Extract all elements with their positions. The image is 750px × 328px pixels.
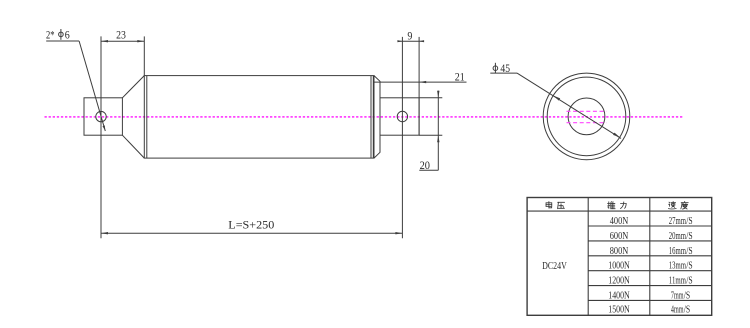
table row line 4 — [588, 270, 712, 272]
dimension L=S+250 line — [101, 232, 402, 234]
end view outer circle — [543, 73, 630, 160]
dimension 23 arrow right — [137, 40, 144, 42]
svg-text:1200N: 1200N — [608, 276, 630, 287]
svg-text:20mm: 20mm — [669, 231, 687, 242]
rod hole — [397, 111, 407, 121]
end view hidden line top — [567, 110, 607, 112]
svg-text:/S: /S — [686, 276, 692, 287]
dimension 20 vertical line — [437, 91, 439, 171]
svg-text:4mm: 4mm — [671, 304, 684, 315]
label phi45 underline — [490, 72, 517, 74]
extension line rod end — [418, 37, 420, 135]
table header voltage (dian ya) — [546, 202, 565, 209]
extension line left hole center — [100, 36, 102, 238]
label 2*phi6 leader — [79, 41, 105, 131]
svg-text:/S: /S — [686, 231, 692, 242]
clevis block — [84, 98, 122, 135]
svg-text:7mm: 7mm — [671, 290, 684, 301]
dimension 23 line — [101, 40, 144, 42]
dimension 9 line — [398, 40, 423, 42]
svg-text:800N: 800N — [610, 246, 629, 257]
table row line 3 — [588, 255, 712, 257]
table row line 2 — [588, 240, 712, 242]
end cap with chamfer — [374, 76, 380, 159]
svg-text:16mm: 16mm — [669, 246, 687, 257]
dimension 20 arrow bottom — [437, 135, 439, 142]
cylinder right joint line 1 — [370, 76, 372, 159]
dimension 21 arrow — [419, 81, 426, 83]
table row line 1 — [588, 225, 712, 227]
dimension 9 arrow right — [419, 40, 424, 42]
svg-text:/S: /S — [686, 246, 692, 257]
svg-text:20: 20 — [420, 158, 430, 172]
table row line 5 — [588, 285, 712, 287]
svg-text:6: 6 — [65, 27, 70, 41]
taper top line — [122, 76, 144, 98]
cylinder body — [144, 76, 374, 159]
label phi45 diameter line — [517, 73, 621, 138]
svg-text:/S: /S — [686, 216, 692, 227]
label 2*phi6 leader arrowhead — [103, 125, 106, 131]
rod block — [380, 98, 419, 135]
cylinder left joint line — [146, 76, 148, 159]
dimension 20 bottom extension — [419, 134, 442, 136]
table row line 6 — [588, 299, 712, 301]
table header bottom line — [527, 210, 712, 212]
label phi45 diameter symbol — [493, 66, 498, 71]
extension line cylinder left face — [143, 36, 145, 75]
taper bottom line — [122, 135, 144, 158]
phi45 arrow upper — [553, 96, 560, 101]
table column divider 2 — [649, 198, 651, 316]
svg-text:2*: 2* — [46, 27, 55, 41]
dimension 23 arrow left — [101, 40, 108, 42]
table column divider 1 — [587, 198, 589, 316]
svg-text:1400N: 1400N — [608, 290, 630, 301]
phi45 arrow lower — [613, 133, 620, 138]
svg-text:600N: 600N — [610, 231, 629, 242]
dimension 21 leader line — [374, 81, 467, 83]
dimension 20 top extension — [419, 97, 442, 99]
svg-text:21: 21 — [455, 69, 465, 83]
table header thrust (tui li) — [608, 202, 627, 209]
dimension 20 tail line — [419, 169, 438, 171]
extension line rod hole center — [401, 37, 403, 238]
svg-text:/S: /S — [684, 290, 690, 301]
table outer border — [527, 198, 712, 316]
dimension L arrow right — [395, 232, 402, 234]
svg-text:400N: 400N — [610, 216, 629, 227]
svg-text:1000N: 1000N — [608, 261, 630, 272]
svg-text:/S: /S — [684, 304, 690, 315]
svg-text:11mm: 11mm — [669, 276, 687, 287]
dimension 20 arrow top — [437, 91, 439, 98]
dimension L arrow left — [101, 232, 108, 234]
label 2*phi6 diameter symbol — [59, 32, 64, 37]
cylinder right joint line 2 — [372, 76, 374, 159]
svg-text:27mm: 27mm — [669, 216, 687, 227]
svg-text:/S: /S — [686, 261, 692, 272]
label 2*phi6 underline — [46, 40, 79, 42]
svg-text:13mm: 13mm — [669, 261, 687, 272]
centerline — [45, 116, 684, 118]
dimension 9 arrow left — [397, 40, 402, 42]
svg-text:9: 9 — [407, 29, 412, 43]
svg-text:1500N: 1500N — [608, 304, 630, 315]
end view hidden line bottom — [567, 122, 607, 124]
svg-text:23: 23 — [116, 27, 126, 41]
end view rod circle — [568, 98, 605, 135]
clevis hole — [96, 111, 106, 121]
table header speed (su du) — [668, 201, 688, 209]
svg-text:DC24V: DC24V — [542, 261, 567, 272]
svg-text:L=S+250: L=S+250 — [228, 218, 274, 232]
end view ring circle — [547, 77, 626, 156]
